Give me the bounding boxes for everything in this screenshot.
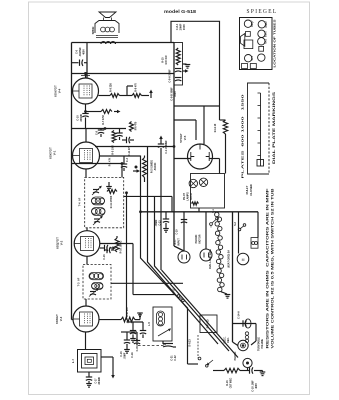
label L5 [148,322,151,326]
label phono jacks [234,351,237,360]
wire antenna lead [114,42,116,45]
svg-text:TURNTABLE: TURNTABLE [258,337,261,351]
svg-text:R-6 470: R-6 470 [135,121,138,130]
svg-text:.05MF: .05MF [125,352,127,359]
label dial plate markings [272,90,276,164]
label S-1 [212,208,215,213]
label C18 [252,380,259,392]
ground filter [183,64,191,68]
wire connector up [257,212,259,238]
filter shield box [174,43,183,86]
svg-text:C-9: C-9 [96,130,99,135]
svg-text:V-3: V-3 [59,316,63,321]
arrow R7 [114,110,121,114]
capacitor C16 [104,247,114,253]
ground C18 [260,371,266,376]
svg-text:PHONO: PHONO [207,319,210,328]
svg-text:PLATES 600 1000 1550: PLATES 600 1000 1550 [241,94,245,179]
svg-text:C-16: C-16 [103,254,106,260]
svg-text:(6SA7 GRID) 5A: (6SA7 GRID) 5A [228,250,231,268]
wire x232 [232,212,234,342]
svg-text:AUDIO: AUDIO [154,163,157,171]
phono motor plug [200,249,212,261]
wire AVC bus [72,164,123,178]
resistor R11 [107,190,117,194]
capacitor C8A [175,69,189,73]
svg-text:INPUT: INPUT [178,238,181,246]
T3 primary coil [89,273,104,280]
T3 trimmer [89,288,99,297]
svg-text:R-15: R-15 [162,57,165,63]
L5 coil [157,311,165,326]
transformer T4 box [85,177,124,227]
pilot lamp 1 [189,179,197,187]
label C19 [177,229,179,235]
wire T3 out [85,299,87,306]
wire AC loop [171,21,220,106]
svg-text:DIAL PLATE MARKINGS: DIAL PLATE MARKINGS [272,90,276,164]
switch S-2 [238,224,246,231]
capacitor C18A [134,332,140,346]
wire C13 drop [165,212,167,219]
svg-text:NO.44: NO.44 [190,192,193,199]
wire bundle 3 [155,196,230,351]
label phono jack [207,319,210,328]
svg-text:.006MF: .006MF [80,113,83,122]
svg-text:DIAL LAMP WIRE: DIAL LAMP WIRE [209,249,212,269]
wire V1 plate [85,128,87,142]
wire grid stub V4 [72,62,79,64]
wire V5 screen [174,106,204,144]
speaker SPKR [99,12,116,21]
capacitor C16b [140,322,146,338]
tube V4 6SA7GT [73,78,99,104]
wire V5 right [209,159,219,174]
svg-text:C-21: C-21 [171,355,174,361]
label fully closed [245,184,253,196]
oscillator coil L5 box [153,307,172,341]
wire R8 out [142,95,150,97]
svg-text:REC.: REC. [228,337,230,343]
socket 6SA7 [258,21,265,28]
wire jack stub [247,368,249,371]
label V2 [56,237,64,249]
label R11 [110,195,113,208]
svg-text:5Y3: 5Y3 [251,55,254,60]
L5 trimmer arrow [158,328,171,336]
label R2 [151,160,158,173]
phono jack box [200,315,217,333]
svg-text:C-8-A 20MF: C-8-A 20MF [169,69,172,83]
label C13 [155,219,162,226]
wire V4 top cap [81,74,90,79]
svg-text:PHONO: PHONO [234,351,237,360]
svg-text:C-1 470MMF: C-1 470MMF [165,140,168,154]
svg-text:RESISTORS ARE IN OHMS CAPACIT: RESISTORS ARE IN OHMS CAPACITORS ARE IN … [266,189,270,349]
wire top rail [72,42,175,44]
capacitor C18 [250,367,253,373]
title: model G-518 [164,9,196,15]
svg-text:400V: 400V [255,383,258,389]
T4 cap+ground [106,182,112,190]
label C18A [131,352,134,358]
ground R17 [137,313,143,320]
capacitor C9 [98,128,104,137]
wire V3 bottom [85,332,87,350]
T4 trimmer 1 [92,186,102,195]
label R16 [226,377,233,388]
wire motor lead [238,212,240,254]
svg-text:VOLUME: VOLUME [262,339,264,349]
arrow R2 wiper [133,169,140,173]
svg-text:R-16: R-16 [226,380,229,386]
label V4 [54,85,62,97]
svg-text:150V: 150V [174,91,177,97]
resistor R10 [115,236,119,252]
svg-text:MOTOR: MOTOR [199,234,202,243]
title: SPIEGEL [247,8,278,15]
resistor R7 [101,110,112,114]
svg-text:6K6: 6K6 [264,38,267,43]
label S-A13 [188,339,192,347]
svg-text:R-7 47M: R-7 47M [102,115,105,124]
svg-text:R-11 47000: R-11 47000 [110,195,113,208]
wire y294 [133,294,176,296]
tube V1 6SK7GT [73,142,100,169]
dial plate box [248,83,270,174]
label V3 [55,314,63,324]
wire V4 plate out [99,95,111,97]
wire caps feed2 [121,331,137,333]
capacitor C17 [86,377,92,383]
socket 6K6 [258,38,265,45]
label C16A [120,351,127,360]
wire V2 plate [86,228,88,231]
label C10 [77,113,84,122]
wire motor link [233,342,238,346]
label R9 [110,83,113,92]
T3 secondary coil [92,283,104,290]
wire bundle 2 [148,147,219,345]
phono jack J2 [243,358,252,367]
wire V2 out2 [100,243,133,245]
socket 5Y3 [245,55,252,62]
label R10 [120,241,123,254]
wire y212 [140,211,258,213]
resistor R5 [112,131,116,143]
tube location box [240,18,273,70]
label chain right [228,250,231,268]
svg-text:R-8 470: R-8 470 [135,83,138,92]
capacitor C3 [121,156,127,171]
dial scale [257,93,264,166]
wire y128 [72,128,127,130]
wire V3 out [99,319,121,321]
output transformer secondary [101,42,115,44]
resistor R15 [176,48,180,65]
note resistors [266,189,270,349]
label AC input [174,238,181,246]
resistor R8 [132,94,142,98]
arrow L7 lead [111,374,115,379]
jack chain [245,332,248,343]
wire C1 down [160,148,162,270]
label S-2 [234,221,237,225]
transformer icon [244,40,253,49]
wire B+ line y73.5 [72,73,175,75]
wire S-A13 down [188,360,199,364]
capacitor C8B [175,78,181,81]
note volume control [271,188,275,349]
label C15 [136,338,139,351]
transformer T3 box [83,265,111,300]
capacitor C14A [243,319,251,328]
label 6K6 [264,38,267,43]
svg-text:150V: 150V [182,24,186,30]
wire caps feed [127,321,144,323]
svg-text:R-9 22K: R-9 22K [110,83,113,92]
svg-text:C-13: C-13 [160,220,162,226]
svg-text:S-2: S-2 [234,221,237,225]
tube V3 6K6GT [73,306,99,332]
junction y128 [104,128,106,130]
ground C17 [86,384,92,388]
svg-text:S-A13: S-A13 [188,339,192,347]
capacitor C13B [181,220,187,223]
svg-text:C-19: C-19 [177,229,179,235]
svg-text:SPIEGEL: SPIEGEL [247,8,278,15]
label C17 [96,376,102,385]
label T3 [77,277,81,286]
wire AC input lead [183,212,185,251]
socket rect [258,54,265,61]
wire rail x174 [174,43,184,252]
svg-text:T-3 I-F: T-3 I-F [77,277,81,286]
label location of tubes [273,19,277,67]
label R17 [127,307,129,317]
label C8 text [175,23,186,30]
svg-text:R-1 47K: R-1 47K [109,157,112,166]
label phono motor [195,234,202,243]
wire bundle 1 [141,156,188,361]
pilot lamp box [191,174,225,209]
motor connector box [251,238,258,249]
label R14 [214,123,217,132]
phono jack J1 [238,340,248,350]
svg-text:C-14-A: C-14-A [238,311,241,319]
wire y106 [174,105,220,107]
motor M [237,253,249,265]
switch S-A13 [198,335,201,360]
output transformer primary [95,21,119,34]
label T4 [78,197,82,206]
resistor R16 [224,368,240,372]
label R8 [135,83,138,92]
trim squares [242,64,257,69]
wire phono motor lead [205,212,207,249]
svg-text:model G-518: model G-518 [164,9,196,15]
capacitor C11 [122,137,134,143]
resistor R17 [121,317,135,322]
capacitor C13 [163,219,169,228]
wire V3 grid [72,319,74,321]
resistor R6 [130,122,134,132]
label SPKR [91,27,95,35]
transformer core [96,36,118,38]
svg-text:V-1: V-1 [53,150,57,155]
label L7 [71,358,75,363]
label C1 [165,140,168,154]
S-A13 arrow [206,360,214,367]
label R7 [102,115,105,124]
label C9 [96,130,99,135]
svg-text:L-7: L-7 [71,358,75,363]
wire V4 plate [86,43,88,79]
T4 primary coil [92,197,105,205]
label pilot lamps [183,192,193,201]
svg-text:C-8-4: C-8-4 [175,23,179,30]
resistor R14 [223,120,227,134]
wire left rail [71,43,73,320]
wire V4 cathode [85,104,87,113]
socket 6SQ7 [244,20,251,27]
svg-text:CLOSED: CLOSED [249,184,253,196]
capacitor C2 [116,129,122,141]
svg-text:20MF: 20MF [179,23,183,30]
capacitor C10 [82,114,88,129]
svg-text:1000 1W: 1000 1W [166,55,168,65]
socket small [259,46,264,51]
label plates scale [241,94,245,179]
label V1 [49,147,57,159]
switch S-1 [210,217,219,228]
label 5Y3 [251,55,254,60]
label V5 [179,133,187,143]
wire x133 [132,244,134,295]
label 6SK7 [265,30,268,37]
capacitor C16a [105,245,117,251]
wire lamp box down [198,208,200,212]
svg-text:LAMPS: LAMPS [187,192,190,201]
ground C13 [163,229,169,233]
label C16 [103,254,106,260]
label R15 [162,55,169,65]
svg-text:CUT MEG: CUT MEG [231,377,233,388]
svg-text:ELEC.: ELEC. [225,336,227,343]
svg-text:V-2: V-2 [60,240,64,245]
label C3 [126,157,129,162]
label R5 [112,145,115,154]
svg-text:R-10 1MEG: R-10 1MEG [120,241,123,254]
T4 secondary coil [92,208,106,216]
svg-text:S-1: S-1 [212,208,215,213]
label C8B [171,87,178,101]
svg-text:C-3: C-3 [126,157,129,162]
label 6SQ7 [251,20,254,27]
wire R16 out [240,370,249,372]
label R1 [109,157,112,166]
label elec rec [225,336,231,343]
label C6 [76,47,86,57]
wire V2 out [100,247,104,249]
svg-text:6SK7: 6SK7 [265,30,268,37]
wire V1 out [100,156,141,168]
wire R17 out [135,319,140,321]
wire L7 right [101,357,113,374]
svg-text:V-5: V-5 [183,135,187,140]
wire R7 row [85,111,102,113]
wire L7 bottom [88,372,90,377]
tube V2 6SQ7GT [74,231,100,257]
wire dashed bias [138,345,164,347]
svg-text:M: M [242,258,245,262]
wire V5 left [174,158,191,160]
wire y146 [95,146,174,148]
svg-text:VOLUME CONTROL R2 IS 0.5 MEG,: VOLUME CONTROL R2 IS 0.5 MEG, WITH SWITC… [271,188,275,349]
lamp box resistor [192,202,199,205]
svg-text:6SA7: 6SA7 [265,21,268,28]
wire R14 jog [220,106,226,120]
tube V5 5Y3GT [188,144,213,169]
wire R14 down [225,134,227,174]
output transformer L7 [78,350,102,373]
label 6SA7 [265,21,268,28]
resistor R9 [110,94,120,98]
switch S-1C [177,295,184,302]
junction dots [84,72,175,212]
potentiometer R2 [143,156,147,183]
wire y323.5 [232,323,256,325]
svg-text:L-5: L-5 [148,322,151,326]
label C14A [238,311,241,319]
socket ballast [246,32,251,37]
svg-text:R-14 40: R-14 40 [214,123,217,132]
svg-text:.05MF: .05MF [155,219,158,226]
wire R9-R8 [120,95,133,97]
wire bundle 4 [162,270,239,358]
speaker icon [241,34,245,47]
wire C18 out [254,370,260,372]
svg-text:C-22: C-22 [174,355,177,361]
B+ arrow [149,90,153,99]
label dial lamp wire [209,249,212,269]
pilot lamp 2 [199,178,207,186]
capacitor C16A [124,332,130,353]
svg-text:LOCATION OF TUBES: LOCATION OF TUBES [273,19,277,67]
svg-text:V-4: V-4 [58,88,62,93]
wire V1 cathode [85,169,87,177]
capacitor C1 [158,136,164,148]
label C8A [169,69,172,83]
wire T4 out [124,196,172,211]
label C22 [171,355,178,361]
svg-text:R-17 100: R-17 100 [127,307,129,317]
capacitor C22 [163,341,176,347]
capacitor C6 [80,60,88,79]
AC input plug [178,251,190,263]
svg-text:6SQ7: 6SQ7 [251,20,254,27]
wire R16 in [213,370,224,372]
svg-text:C-1A: C-1A [131,352,134,358]
svg-text:400V: 400V [83,49,86,55]
wire V2 cathode [86,256,88,264]
label R4 [135,121,138,130]
wire C14 right [251,324,256,346]
svg-text:.004MF: .004MF [98,376,101,385]
dial lamp wire chain [215,212,225,291]
ground chain [221,292,230,298]
capacitor C15 [130,322,136,342]
